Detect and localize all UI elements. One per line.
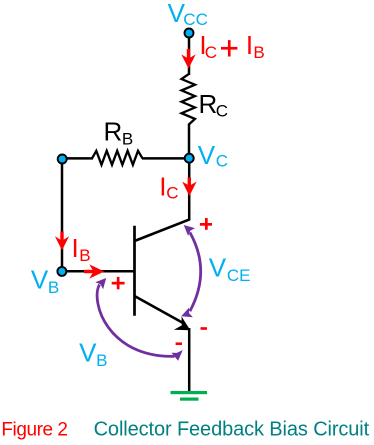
svg-text:VCE: VCE [209, 252, 251, 285]
plus sign in IC+IB [221, 40, 237, 56]
svg-text:IC: IC [159, 172, 178, 203]
node VC [185, 154, 194, 163]
node VCC [185, 29, 194, 38]
transistor Q1 base bar [133, 226, 136, 316]
current arrow IC [182, 178, 196, 197]
current arrow base [84, 264, 104, 278]
transistor Q1 emitter [135, 296, 185, 324]
current arrow IC+IB [181, 49, 195, 69]
svg-text:ICIB: ICIB [199, 30, 264, 62]
svg-text:VCC: VCC [168, 0, 208, 29]
svg-text:RC: RC [199, 89, 228, 121]
resistor RB [92, 151, 143, 165]
voltage arc VCE [190, 232, 201, 311]
wire RC to VC [188, 124, 191, 159]
svg-text:VC: VC [198, 140, 228, 171]
wire emitter down [188, 328, 191, 392]
node VB [57, 267, 66, 276]
svg-text:IB: IB [72, 233, 91, 265]
svg-text:Collector Feedback Bias Circui: Collector Feedback Bias Circuit [94, 419, 370, 441]
wire left rail down [61, 159, 64, 271]
transistor Q1 emitter arrowhead [174, 316, 190, 330]
ground [171, 391, 208, 401]
arrowhead VCE top [184, 225, 195, 236]
minus sign VB [176, 342, 182, 345]
plus sign base-emitter [112, 277, 125, 289]
svg-text:VB: VB [79, 338, 107, 370]
current arrow IB [55, 232, 69, 251]
arrowhead VB right [171, 350, 182, 361]
wire VC to collector corner [188, 158, 191, 220]
minus sign VCE [201, 327, 208, 330]
svg-text:Figure 2: Figure 2 [1, 419, 68, 440]
resistor RC [182, 74, 196, 125]
wire RB to VC [142, 157, 189, 160]
voltage arc VB [97, 285, 174, 357]
node junction left [58, 155, 67, 164]
wire base [62, 270, 134, 273]
transistor Q1 collector [135, 219, 190, 241]
svg-text:RB: RB [104, 117, 134, 149]
wire VCC to RC [188, 38, 191, 76]
wire left node to RB [62, 157, 93, 160]
plus sign collector [200, 218, 212, 230]
svg-text:VB: VB [31, 265, 59, 297]
arrowhead VCE bottom [181, 308, 193, 318]
arrowhead VB top [95, 278, 106, 289]
